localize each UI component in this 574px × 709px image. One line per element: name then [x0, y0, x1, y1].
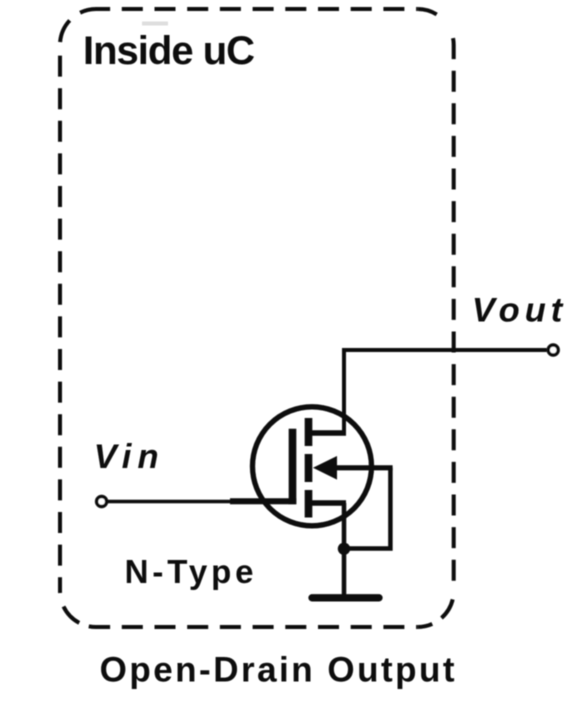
svg-text:N-Type: N-Type	[125, 553, 258, 590]
source lead	[308, 500, 346, 506]
stray faint mark above label	[142, 22, 168, 26]
wire junction to ground	[342, 549, 347, 595]
junction dot source-body	[338, 543, 350, 555]
svg-text:Open-Drain Output: Open-Drain Output	[100, 651, 457, 690]
wire source to junction	[342, 503, 347, 549]
ground bar	[312, 594, 379, 601]
dashed enclosure boundary: top-left corner	[60, 9, 96, 45]
svg-text:Inside uC: Inside uC	[83, 29, 254, 73]
wire Vin terminal to gate lead	[107, 500, 232, 504]
gate lead (thick)	[230, 498, 296, 504]
wire drain to Vout terminal	[344, 350, 547, 433]
transistor Q1 N-channel MOSFET body circle	[253, 407, 372, 526]
dashed enclosure boundary: top edge	[96, 7, 418, 11]
dashed enclosure boundary: left edge	[58, 45, 62, 591]
channel segment source (bottom)	[305, 490, 313, 518]
drain lead	[308, 430, 346, 436]
wire body to source junction	[344, 468, 390, 549]
dashed enclosure boundary: bottom-left corner	[60, 591, 96, 627]
svg-text:Vout: Vout	[472, 291, 567, 329]
channel segment body (middle)	[305, 454, 313, 482]
body lead (arrow to right)	[330, 465, 393, 470]
terminal Vout open circle	[548, 345, 558, 355]
body arrow (points into channel)	[313, 456, 337, 480]
dashed enclosure boundary: top-right corner	[418, 9, 454, 45]
terminal Vin open circle	[97, 497, 107, 507]
dashed enclosure boundary: right edge	[452, 45, 456, 591]
dashed enclosure boundary: bottom edge	[96, 625, 418, 629]
dashed enclosure boundary: bottom-right corner	[418, 591, 454, 627]
gate bar	[289, 429, 297, 504]
channel segment drain (top)	[305, 418, 313, 446]
svg-text:Vin: Vin	[94, 438, 165, 476]
